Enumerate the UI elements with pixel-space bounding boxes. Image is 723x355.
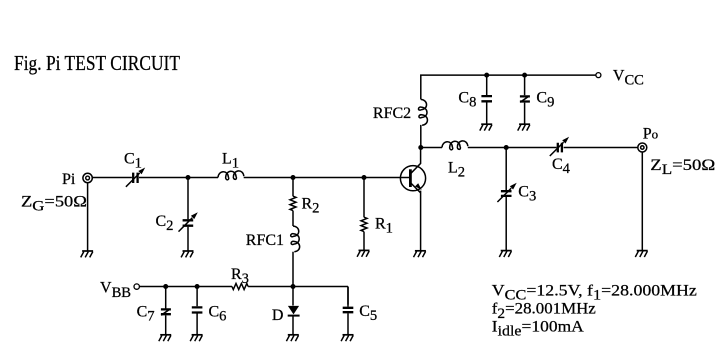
svg-text:R2: R2 — [302, 196, 320, 217]
svg-text:L2: L2 — [448, 159, 465, 180]
svg-text:ZG=50Ω: ZG=50Ω — [21, 194, 87, 215]
svg-text:Iidle=100mA: Iidle=100mA — [492, 319, 584, 340]
svg-text:C5: C5 — [359, 303, 377, 324]
svg-text:Po: Po — [643, 126, 658, 143]
svg-text:VCC: VCC — [613, 67, 644, 88]
svg-text:RFC1: RFC1 — [246, 232, 284, 249]
svg-text:C3: C3 — [518, 184, 536, 205]
svg-text:D: D — [272, 307, 284, 324]
svg-text:VBB: VBB — [100, 280, 131, 301]
svg-text:C1: C1 — [124, 151, 142, 172]
svg-text:C6: C6 — [209, 304, 227, 325]
svg-text:C9: C9 — [536, 90, 554, 111]
svg-text:Pi: Pi — [62, 171, 76, 188]
svg-text:RFC2: RFC2 — [373, 105, 411, 122]
svg-text:R3: R3 — [231, 266, 249, 287]
svg-text:ZL=50Ω: ZL=50Ω — [650, 157, 715, 178]
svg-text:R1: R1 — [375, 216, 393, 237]
svg-text:C8: C8 — [458, 90, 476, 111]
svg-text:C4: C4 — [552, 156, 571, 177]
svg-text:C7: C7 — [137, 304, 155, 325]
svg-text:L1: L1 — [222, 151, 239, 172]
svg-text:C2: C2 — [156, 213, 174, 234]
svg-text:Fig. Pi TEST CIRCUIT: Fig. Pi TEST CIRCUIT — [14, 51, 180, 75]
